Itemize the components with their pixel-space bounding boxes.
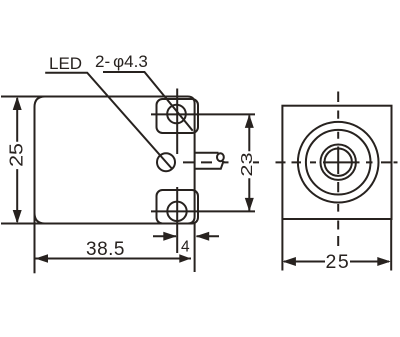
vertical centerline dashes (front view) — [337, 92, 339, 247]
arrowhead 25-left bottom — [13, 210, 22, 224]
LED leader underline — [45, 73, 172, 169]
bottom mounting ear — [157, 190, 199, 224]
arrowhead 38.5 right — [179, 254, 191, 263]
arrowhead 25-left top — [13, 97, 22, 111]
bottom hole crosshair vertical / extension for 4 — [176, 187, 178, 253]
cable end ellipse — [217, 153, 224, 161]
outer coil circle — [298, 122, 379, 203]
38.5 left extension line — [34, 205, 36, 273]
arrowhead 4 right (points left) — [196, 232, 210, 241]
bottom hole crosshair / extension line for 23 — [151, 210, 255, 212]
LED indicator circle — [157, 153, 175, 171]
25 left: bottom extension line — [1, 223, 46, 225]
svg-text:23: 23 — [239, 152, 256, 176]
svg-text:4: 4 — [181, 239, 190, 256]
2-phi4.3 leader underline — [103, 72, 193, 131]
second coil circle — [306, 130, 371, 195]
svg-text:25: 25 — [7, 143, 27, 167]
arrowhead 23 bottom — [245, 198, 254, 212]
arrowhead 23 top — [245, 114, 254, 128]
4 dimension line right part — [197, 235, 220, 237]
25 front: left extension line — [281, 220, 283, 271]
svg-text:2-φ4.3: 2-φ4.3 — [95, 52, 148, 71]
front view square — [282, 106, 391, 219]
top hole crosshair / extension line for 23 — [151, 113, 255, 115]
svg-text:38.5: 38.5 — [86, 239, 125, 260]
sensor body outline (side view) — [35, 97, 195, 224]
4 dimension line left part — [153, 235, 176, 237]
25 front: right extension line — [390, 220, 392, 271]
25 front: dimension line (broken for text) — [284, 261, 389, 263]
core outer circle — [321, 145, 356, 180]
top ear hole — [167, 105, 186, 124]
horizontal centerline dashes (axis) — [183, 161, 398, 163]
svg-text:LED: LED — [49, 54, 82, 73]
arrowhead 25-front right — [377, 257, 391, 266]
top hole crosshair vertical — [176, 89, 178, 155]
38.5 dimension line — [35, 258, 191, 260]
arrowhead 4 left (points right) — [163, 232, 177, 241]
38.5 / 4 right extension line — [194, 222, 196, 272]
svg-text:25: 25 — [326, 251, 351, 273]
arrowhead 38.5 left — [35, 254, 48, 263]
23 dimension line (broken for text) — [248, 116, 250, 211]
top mounting ear — [157, 99, 199, 133]
cable outline — [195, 153, 224, 169]
arrowhead 25-front left — [282, 257, 296, 266]
25 left: top extension line — [1, 96, 46, 98]
25 left: dimension line (broken for text) — [16, 98, 18, 222]
core inner circle — [325, 149, 352, 176]
bottom ear hole — [167, 202, 186, 221]
